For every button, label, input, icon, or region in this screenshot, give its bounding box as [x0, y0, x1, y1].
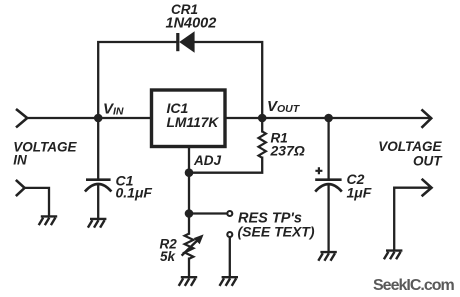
svg-text:0.1μF: 0.1μF: [116, 184, 153, 200]
svg-text:VOLTAGE: VOLTAGE: [378, 139, 442, 154]
svg-text:237Ω: 237Ω: [270, 143, 305, 159]
svg-text:CR1: CR1: [171, 2, 198, 17]
svg-text:SeekIC.com: SeekIC.com: [373, 277, 454, 294]
svg-text:5k: 5k: [160, 249, 177, 264]
svg-text:1μF: 1μF: [347, 185, 372, 201]
svg-text:IN: IN: [13, 152, 27, 167]
svg-text:LM117K: LM117K: [167, 115, 220, 130]
svg-text:OUT: OUT: [413, 153, 443, 168]
svg-text:(SEE TEXT): (SEE TEXT): [238, 224, 315, 240]
svg-text:1N4002: 1N4002: [166, 16, 217, 32]
svg-text:IC1: IC1: [167, 100, 189, 116]
svg-text:ADJ: ADJ: [193, 153, 221, 168]
